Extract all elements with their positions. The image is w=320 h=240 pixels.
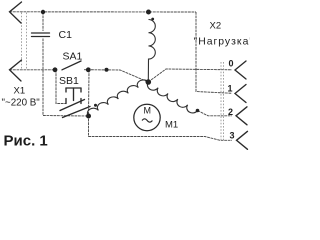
svg-text:X2: X2	[210, 20, 222, 31]
svg-text:M1: M1	[165, 120, 178, 131]
svg-text:X1: X1	[14, 86, 26, 97]
svg-text:SA1: SA1	[63, 51, 83, 63]
svg-text:Рис. 1: Рис. 1	[4, 133, 48, 150]
svg-text:1: 1	[228, 84, 233, 94]
svg-text:SB1: SB1	[59, 75, 79, 87]
svg-text:3: 3	[230, 131, 235, 141]
svg-text:М: М	[144, 106, 152, 116]
svg-text:0: 0	[229, 59, 234, 69]
svg-text:"~220 В": "~220 В"	[2, 98, 41, 109]
svg-text:2: 2	[228, 107, 233, 117]
svg-text:C1: C1	[59, 29, 73, 41]
svg-text:"Нагрузка": "Нагрузка"	[194, 36, 251, 47]
